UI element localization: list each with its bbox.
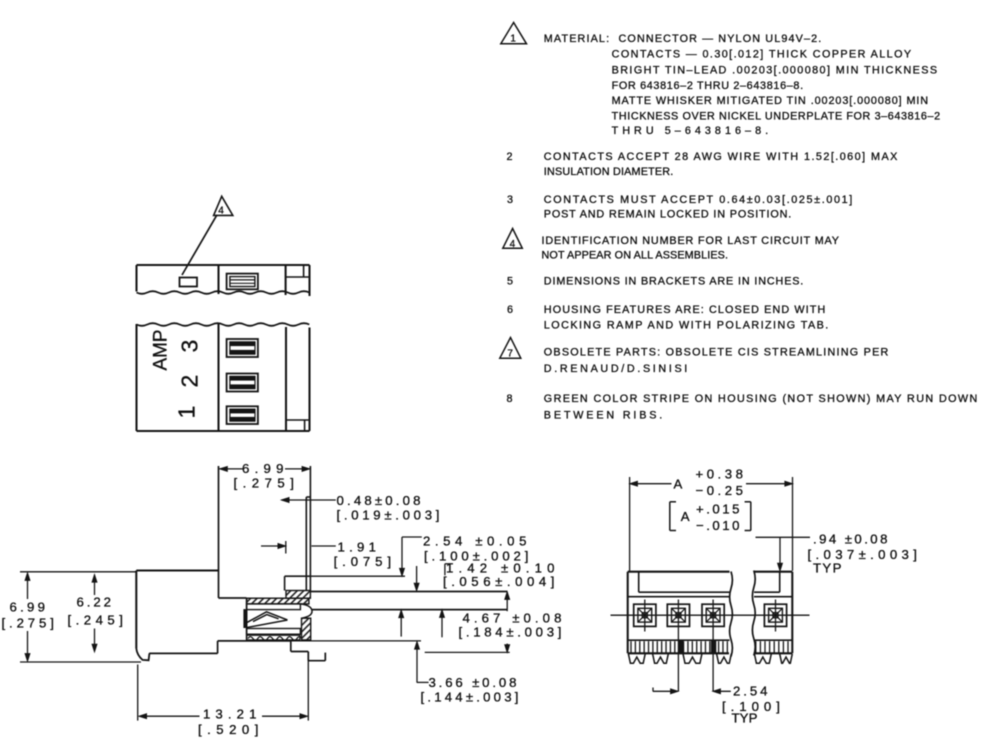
- side view right wall outer line: [309, 466, 311, 591]
- contact 2 centerline / extension: [677, 600, 679, 692]
- dimension 0.48 leader: [282, 498, 336, 503]
- contact spring arm: [246, 612, 287, 628]
- svg-text:BETWEEN RIBS.: BETWEEN RIBS.: [544, 409, 663, 421]
- svg-text:2: 2: [177, 375, 203, 388]
- flag triangle 4: [214, 196, 233, 216]
- svg-text:13.21: 13.21: [203, 707, 258, 722]
- svg-text:MATERIAL: CONNECTOR — NYLON U: MATERIAL: CONNECTOR — NYLON UL94V–2.: [544, 33, 822, 45]
- bottom view contact 4: [764, 604, 786, 626]
- svg-text:LOCKING RAMP AND WITH POLARIZI: LOCKING RAMP AND WITH POLARIZING TAB.: [544, 320, 829, 332]
- bracketed dimension [A +.015/-.010]: [670, 502, 751, 534]
- svg-text:D.RENAUD/D.SINISI: D.RENAUD/D.SINISI: [544, 363, 688, 375]
- note 1 flag triangle: [501, 23, 527, 45]
- side view housing left edge: [135, 571, 137, 649]
- bottom view top-left block: [638, 572, 640, 593]
- svg-text:[.056±.004]: [.056±.004]: [443, 574, 556, 589]
- contact upper body bar: [247, 604, 301, 610]
- svg-text:+0.38: +0.38: [696, 467, 745, 482]
- bottom view ribs: [631, 641, 788, 652]
- side view hatched housing step: [286, 591, 310, 599]
- dimension 1.91 text: [334, 540, 393, 570]
- note 8 number: [507, 393, 514, 405]
- note 7 flag triangle: [500, 338, 521, 360]
- lower view divider wall right: [285, 327, 287, 431]
- svg-text:[.075]: [.075]: [334, 554, 393, 569]
- contact 1 centerline: [644, 600, 646, 632]
- svg-text:6.99: 6.99: [10, 600, 47, 615]
- side view shroud left wall: [218, 466, 220, 598]
- svg-text:A: A: [681, 509, 691, 524]
- dimension 2.54 TYP: [653, 688, 731, 694]
- svg-text:.94 ±0.08: .94 ±0.08: [813, 532, 889, 547]
- wavy break line (lower view top): [137, 323, 310, 326]
- side view step extension line: [310, 575, 405, 577]
- bottom view standoff foot 2: [653, 654, 669, 663]
- svg-text:2: 2: [507, 151, 514, 163]
- dimension 4.67 text: [459, 611, 564, 640]
- side view housing top edge: [136, 569, 218, 571]
- bottom view standoff foot 1: [628, 654, 645, 663]
- bottom view contact 2: [667, 604, 689, 626]
- svg-text:INSULATION DIAMETER.: INSULATION DIAMETER.: [544, 166, 674, 178]
- solder tail bottom edge: [312, 609, 507, 611]
- svg-text:TYP: TYP: [813, 561, 843, 576]
- wavy break line (upper view bottom): [137, 291, 310, 294]
- upper view contact slot: [227, 274, 258, 290]
- upper view divider wall left: [217, 265, 219, 294]
- bottom view wavy break left: [730, 572, 733, 657]
- contact hatched top bar: [247, 598, 309, 604]
- svg-text:6: 6: [507, 304, 514, 316]
- contact slot 1 (front view): [227, 339, 258, 357]
- dimension 4.67 leader: [425, 592, 510, 653]
- svg-text:6.99: 6.99: [242, 461, 285, 476]
- contact slot 3 (front view): [227, 406, 258, 424]
- contact 4 centerline: [775, 600, 777, 632]
- svg-text:0.48±0.08: 0.48±0.08: [337, 493, 423, 508]
- svg-text:CONTACTS — 0.30[.012] THICK CO: CONTACTS — 0.30[.012] THICK COPPER ALLOY: [612, 49, 912, 61]
- svg-text:4.67 ±0.08: 4.67 ±0.08: [463, 611, 564, 626]
- bottom view contact 1: [634, 604, 656, 626]
- dimension 1.91 leader: [261, 541, 336, 554]
- upper view corner notch: [286, 265, 310, 277]
- dimension 13.21: [139, 707, 308, 738]
- bottom view top-right block: [779, 572, 781, 593]
- dimension 6.22 [.245]: [68, 575, 125, 652]
- dimension 2.54 text: [423, 534, 530, 564]
- dimension 2.54 leader: [399, 537, 422, 637]
- side view recess step: [217, 641, 219, 654]
- dimension 13.21 extension lines: [138, 652, 309, 721]
- lower view corner notch: [286, 420, 310, 431]
- side view right standoff foot: [308, 652, 325, 661]
- svg-text:[.144±.003]: [.144±.003]: [421, 690, 521, 705]
- bottom view left edge: [627, 572, 629, 654]
- contact right hatched block: [302, 618, 311, 640]
- svg-text:HOUSING FEATURES ARE: CLOSED E: HOUSING FEATURES ARE: CLOSED END WITH: [544, 304, 826, 316]
- side view bottom edge left: [149, 652, 217, 654]
- note 3 number: [507, 194, 514, 206]
- note 2 number: [507, 151, 514, 163]
- svg-text:3.66 ±0.08: 3.66 ±0.08: [429, 675, 519, 690]
- dimension 3.66 text: [421, 675, 521, 705]
- bottom view top edge: [628, 571, 793, 573]
- svg-text:3: 3: [177, 340, 203, 353]
- svg-text:POST AND REMAIN LOCKED IN POSI: POST AND REMAIN LOCKED IN POSITION.: [544, 209, 792, 221]
- note 5 text: [544, 275, 804, 287]
- note 4 flag triangle: [503, 229, 523, 250]
- side view wall top cap: [306, 496, 310, 498]
- svg-text:5: 5: [507, 275, 514, 287]
- contact rear wall: [244, 598, 247, 641]
- note 3 text: [544, 194, 853, 221]
- svg-text:CONTACTS ACCEPT 28 AWG WIRE WI: CONTACTS ACCEPT 28 AWG WIRE WITH 1.52[.0…: [544, 151, 898, 163]
- svg-text:CONTACTS MUST ACCEPT 0.64±0.03: CONTACTS MUST ACCEPT 0.64±0.03[.025±.001…: [544, 194, 853, 206]
- dimension 6.99 [.275] top: [220, 461, 310, 491]
- svg-text:[.275]: [.275]: [2, 616, 56, 631]
- svg-text:1.91: 1.91: [338, 540, 378, 555]
- dimension .94 leader: [756, 537, 811, 571]
- bottom view right edge: [791, 572, 793, 654]
- svg-text:4: 4: [510, 239, 516, 250]
- svg-text:[.245]: [.245]: [68, 613, 125, 628]
- dimension 0.48 text: [337, 493, 442, 523]
- dimension A +0.38/-0.25: [630, 467, 793, 571]
- svg-text:TYP: TYP: [732, 711, 760, 726]
- side view inner step ledge: [285, 576, 311, 590]
- bottom view standoff foot 4: [717, 654, 732, 663]
- bottom view inner cavity line: [628, 596, 793, 598]
- svg-text:1: 1: [174, 406, 200, 419]
- upper broken front view outline: [137, 265, 310, 296]
- svg-text:−0.25: −0.25: [696, 483, 745, 498]
- svg-text:[.275]: [.275]: [234, 476, 296, 491]
- svg-text:AMP: AMP: [151, 329, 172, 371]
- side view left foot chamfer: [136, 649, 149, 661]
- bottom view rib band top: [628, 639, 793, 641]
- note 7 text: [544, 347, 889, 376]
- solder tail top edge: [310, 591, 507, 593]
- side view recessed bottom: [218, 640, 421, 642]
- dimension .94 text: [808, 532, 919, 576]
- svg-text:[.520]: [.520]: [198, 722, 260, 737]
- dimension 1.42 text: [443, 561, 556, 589]
- contact nose: [300, 604, 312, 618]
- note 8 text: [544, 393, 978, 421]
- svg-text:6.22: 6.22: [77, 595, 113, 610]
- bottom view standoff foot 6: [780, 654, 793, 663]
- upper view divider wall right: [285, 265, 287, 295]
- svg-text:BRIGHT TIN–LEAD .00203[.000080: BRIGHT TIN–LEAD .00203[.000080] MIN THIC…: [612, 64, 938, 76]
- svg-text:3: 3: [507, 194, 514, 206]
- svg-text:A: A: [674, 477, 684, 492]
- side view bottom shelf step: [291, 641, 309, 652]
- bottom view bottom edge: [628, 652, 793, 654]
- bottom view horizontal centerline: [611, 614, 810, 616]
- AMP marking (rotated): [151, 329, 172, 371]
- lower view divider wall left: [217, 324, 219, 432]
- bottom view inner wall line: [639, 591, 780, 593]
- svg-text:8: 8: [507, 393, 514, 405]
- svg-text:OBSOLETE PARTS: OBSOLETE CIS S: OBSOLETE PARTS: OBSOLETE CIS STREAMLININ…: [544, 347, 889, 359]
- dimension 6.99 [.275] left: [2, 572, 142, 662]
- circuit number 2: [177, 375, 203, 388]
- svg-text:FOR 643816–2 THRU 2–643816–8.: FOR 643816–2 THRU 2–643816–8.: [612, 80, 804, 92]
- circuit number 1: [174, 406, 200, 419]
- bottom view contact 3: [702, 604, 724, 626]
- bottom view wavy break right: [752, 571, 755, 656]
- note 2 text: [544, 151, 898, 178]
- note 5 number: [507, 275, 514, 287]
- svg-text:MATTE WHISKER MITIGATED TIN .0: MATTE WHISKER MITIGATED TIN .00203[.0000…: [612, 95, 929, 107]
- circuit number 3: [177, 340, 203, 353]
- contact 3 centerline / extension: [712, 600, 714, 692]
- note 4 text: [542, 235, 840, 262]
- note 6 number: [507, 304, 514, 316]
- contact lower body bar: [247, 629, 301, 635]
- leader line to flag 4: [182, 215, 217, 275]
- svg-text:[.019±.003]: [.019±.003]: [337, 508, 442, 523]
- svg-text:7: 7: [507, 348, 513, 359]
- side view cavity floor: [219, 597, 247, 599]
- identification pad (leader target): [180, 278, 198, 287]
- note 6 text: [544, 304, 829, 332]
- svg-text:2.54: 2.54: [733, 684, 769, 699]
- contact slot 2 (front view): [227, 374, 258, 392]
- svg-text:−.010: −.010: [696, 518, 741, 533]
- note 1 text: [544, 33, 941, 137]
- dimension 3.66 leader: [415, 642, 429, 683]
- svg-text:NOT APPEAR ON ALL ASSEMBLIES.: NOT APPEAR ON ALL ASSEMBLIES.: [542, 250, 729, 262]
- svg-text:+.015: +.015: [696, 502, 741, 517]
- svg-text:DIMENSIONS IN BRACKETS ARE IN: DIMENSIONS IN BRACKETS ARE IN INCHES.: [544, 275, 804, 287]
- dimension 1.42 leader: [414, 564, 453, 638]
- svg-text:2.54 ±0.05: 2.54 ±0.05: [423, 534, 528, 549]
- contact crimp serration bar: [247, 635, 302, 640]
- svg-text:IDENTIFICATION NUMBER FOR LAST: IDENTIFICATION NUMBER FOR LAST CIRCUIT M…: [542, 235, 840, 247]
- lower front view outline: [137, 324, 310, 431]
- side view right wall inner line: [305, 497, 307, 591]
- bottom view standoff foot 5: [754, 654, 771, 663]
- svg-text:1: 1: [510, 34, 516, 45]
- svg-text:THRU 5–643816–8.: THRU 5–643816–8.: [612, 125, 769, 137]
- svg-text:GREEN COLOR STRIPE ON HOUSING: GREEN COLOR STRIPE ON HOUSING (NOT SHOWN…: [544, 393, 978, 405]
- svg-text:[.184±.003]: [.184±.003]: [459, 625, 564, 640]
- svg-text:THICKNESS OVER NICKEL UNDERPLA: THICKNESS OVER NICKEL UNDERPLATE FOR 3–6…: [612, 110, 941, 122]
- dimension 2.54 TYP text: [722, 684, 782, 726]
- bottom view standoff foot 3: [683, 654, 702, 663]
- svg-text:4: 4: [218, 206, 224, 217]
